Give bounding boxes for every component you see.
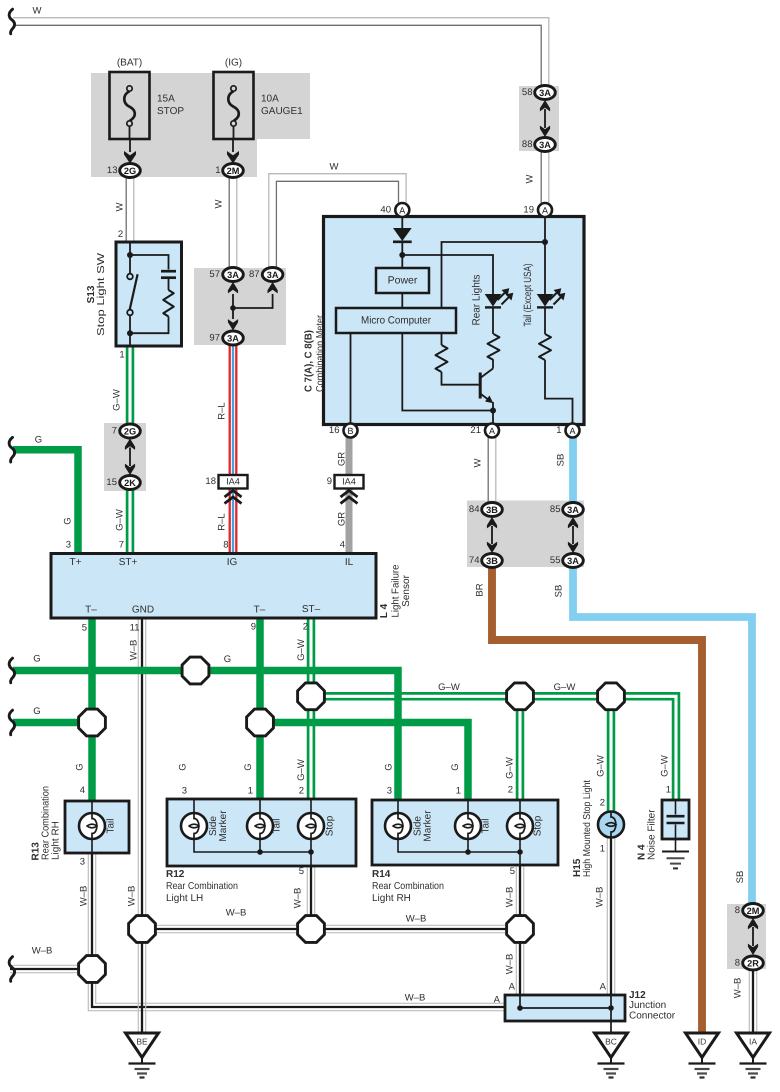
- svg-text:G–W: G–W: [296, 639, 307, 661]
- svg-text:G: G: [450, 763, 461, 770]
- svg-text:2: 2: [303, 622, 308, 633]
- junction node: [542, 239, 548, 245]
- svg-text:W–B: W–B: [293, 888, 304, 909]
- lamp H15 High Mounted Stop Light: [598, 812, 624, 838]
- svg-text:G–W: G–W: [505, 757, 516, 779]
- wire W from battery feed to connector 3A-58: [13, 25, 541, 86]
- meter pin 40: [395, 203, 409, 217]
- lamp R12 Rear Combination Light LH: [167, 799, 356, 866]
- connector 3A pin 57: [223, 268, 244, 282]
- svg-text:GR: GR: [337, 452, 348, 466]
- wire G-W stop light switch pin 1 to connector 2G-7: [126, 346, 129, 424]
- svg-text:Combination Meter: Combination Meter: [315, 314, 326, 392]
- svg-text:W–B: W–B: [79, 886, 90, 907]
- svg-text:Tail: Tail: [481, 818, 492, 833]
- svg-text:G: G: [33, 654, 40, 665]
- svg-text:BC: BC: [605, 1037, 617, 1047]
- svg-text:R12: R12: [166, 869, 185, 880]
- svg-text:57: 57: [209, 269, 220, 280]
- wire resistor to collector: [492, 360, 494, 369]
- svg-text:GR: GR: [337, 512, 348, 526]
- svg-text:W–B: W–B: [405, 993, 426, 1004]
- svg-text:2K: 2K: [124, 478, 136, 488]
- connector 3A pin 97: [223, 331, 244, 345]
- junction node: [490, 408, 496, 414]
- wire micro computer to pin 16: [350, 333, 352, 424]
- svg-text:18: 18: [205, 476, 216, 487]
- svg-text:88: 88: [522, 139, 533, 150]
- svg-text:Rear Combination: Rear Combination: [166, 881, 238, 892]
- resistor rear lights: [488, 334, 500, 360]
- wire W-B light failure sensor GND pin 11 to ground BE: [137, 618, 139, 1033]
- svg-text:13: 13: [107, 165, 118, 176]
- wire meter pin40 to diode: [401, 216, 403, 228]
- wire W connector 3A-88 to meter pin 19: [540, 151, 542, 204]
- svg-text:3A: 3A: [227, 334, 239, 344]
- svg-text:2G: 2G: [124, 166, 136, 176]
- svg-text:BE: BE: [136, 1037, 148, 1047]
- wire W-B ground bus between splices: [142, 932, 520, 934]
- svg-text:15: 15: [106, 477, 117, 488]
- svg-text:BR: BR: [475, 583, 486, 596]
- wire W-B splice to junction connector J12 left pin A: [88, 969, 505, 1011]
- splice tail bus to R12 pin 3: [182, 657, 209, 684]
- svg-text:IA: IA: [749, 1037, 757, 1047]
- svg-text:2: 2: [600, 798, 605, 809]
- svg-text:G–W: G–W: [660, 755, 671, 777]
- svg-text:4: 4: [340, 540, 345, 551]
- svg-text:W–B: W–B: [32, 946, 53, 957]
- svg-text:STOP: STOP: [157, 106, 184, 117]
- svg-text:T–: T–: [254, 605, 266, 616]
- connector 3B pin 84: [482, 503, 503, 517]
- resistor base: [436, 345, 448, 372]
- svg-text:3A: 3A: [539, 140, 551, 150]
- svg-text:G–W: G–W: [112, 389, 123, 411]
- connector gray panel 3B/3A (84/85/74/55): [467, 501, 584, 568]
- meter pin 1: [566, 424, 580, 438]
- svg-text:Light RH: Light RH: [372, 893, 411, 904]
- svg-text:W: W: [473, 458, 484, 467]
- svg-text:Marker: Marker: [218, 810, 229, 842]
- svg-text:5: 5: [510, 866, 515, 877]
- svg-text:W: W: [115, 202, 126, 211]
- break symbol G bus2: [9, 710, 14, 735]
- svg-text:SB: SB: [556, 454, 567, 467]
- svg-text:W–B: W–B: [505, 887, 516, 908]
- svg-text:1: 1: [600, 844, 605, 855]
- splice G-W to high mounted stop light: [598, 683, 625, 710]
- svg-text:R–L: R–L: [217, 513, 228, 530]
- svg-text:40: 40: [380, 205, 391, 216]
- wire W-B high mounted stop light pin 1 to junction connector J12 pin A: [606, 837, 608, 995]
- svg-text:W–B: W–B: [406, 914, 427, 925]
- svg-text:9: 9: [327, 476, 332, 487]
- svg-text:1: 1: [248, 786, 253, 797]
- wire LED to resistor: [492, 308, 494, 335]
- connector mating arrows: [572, 526, 574, 544]
- meter pin 21: [485, 424, 499, 438]
- wire resistor to base: [442, 372, 479, 385]
- break symbol G: [9, 437, 14, 462]
- svg-text:W–B: W–B: [505, 954, 516, 975]
- svg-text:W–B: W–B: [733, 978, 744, 999]
- svg-text:16: 16: [329, 425, 340, 436]
- svg-text:Light LH: Light LH: [166, 893, 203, 904]
- svg-text:3B: 3B: [486, 556, 498, 566]
- wire W connector 3A-87 to meter pin 40: [276, 181, 398, 268]
- svg-text:A: A: [509, 982, 516, 993]
- svg-text:IA4: IA4: [226, 477, 240, 487]
- svg-text:A: A: [542, 206, 548, 216]
- svg-text:15A: 15A: [157, 94, 175, 105]
- svg-text:Tail: Tail: [106, 818, 117, 833]
- svg-text:2R: 2R: [747, 959, 759, 969]
- connector mating arrows: [752, 927, 754, 946]
- svg-text:Junction: Junction: [629, 1000, 666, 1011]
- wire G-W stop signal bus to noise filter pin 1: [311, 699, 673, 800]
- svg-text:W: W: [33, 6, 42, 17]
- svg-text:W: W: [525, 174, 536, 183]
- svg-text:3B: 3B: [486, 505, 498, 515]
- wire SB connector 3A-55 to connector 2M-8: [573, 568, 752, 905]
- ground BE: [126, 1033, 159, 1078]
- svg-text:G: G: [35, 435, 42, 446]
- connector IA4 pin 18: [205, 475, 247, 504]
- svg-text:A: A: [569, 426, 575, 436]
- svg-text:19: 19: [523, 205, 534, 216]
- wire micro computer to emitter node: [402, 333, 493, 411]
- Micro Computer box: [336, 308, 456, 333]
- splice W-B R14: [507, 916, 534, 943]
- svg-text:W–B: W–B: [129, 640, 140, 661]
- svg-text:84: 84: [469, 504, 480, 515]
- splice G-W stop bus: [298, 683, 325, 710]
- wire G break to light failure sensor T+ pin 3: [13, 450, 78, 554]
- svg-text:Connector: Connector: [629, 1011, 676, 1022]
- splice G-W to R14 stop: [507, 683, 534, 710]
- connector 2G pin 13: [120, 164, 141, 178]
- svg-text:A: A: [600, 982, 607, 993]
- svg-text:11: 11: [130, 623, 140, 634]
- svg-text:2: 2: [299, 786, 304, 797]
- wire W connector 2M-1 to connector 3A-57: [228, 178, 230, 269]
- svg-text:G: G: [384, 763, 395, 770]
- lamp R13 Rear Combination Light RH (tail): [31, 786, 130, 861]
- connector mating arrows: [129, 448, 131, 467]
- meter pin 16: [344, 424, 358, 438]
- svg-text:ST–: ST–: [302, 604, 321, 615]
- svg-text:7: 7: [119, 540, 124, 551]
- break symbol W-B: [9, 957, 14, 982]
- connector 2G pin 7: [120, 424, 141, 438]
- svg-text:Noise Filter: Noise Filter: [647, 809, 658, 860]
- svg-text:Micro Computer: Micro Computer: [361, 315, 431, 327]
- svg-text:GND: GND: [132, 605, 154, 616]
- wire emitter to pin 21: [492, 402, 494, 424]
- wire node to rear-lights LED: [402, 255, 493, 294]
- svg-text:SB: SB: [554, 585, 565, 598]
- svg-text:3A: 3A: [267, 270, 279, 280]
- connector gray panel 2M/2R: [727, 904, 766, 969]
- svg-text:2: 2: [508, 785, 513, 796]
- wire W-B connector 2R-8 to ground IA: [748, 970, 750, 1034]
- svg-text:G–W: G–W: [115, 509, 126, 531]
- svg-text:2G: 2G: [124, 427, 136, 437]
- svg-text:Tail: Tail: [272, 818, 283, 833]
- splice G to rear light LH pin 1: [247, 709, 274, 736]
- splice W-B ground bus left: [129, 916, 156, 943]
- connector 3A pin 87: [262, 268, 283, 282]
- ground IA: [737, 1033, 770, 1078]
- wire G tail bus to rear combination light RH side marker pin 3: [13, 671, 398, 802]
- wire fuse STOP to connector 2G: [129, 139, 131, 152]
- svg-text:Light RH: Light RH: [51, 821, 62, 860]
- svg-text:Stop: Stop: [533, 815, 544, 836]
- svg-text:Sensor: Sensor: [401, 574, 412, 606]
- wire G light failure sensor T- pin 9 to rear combination light LH tail pin 1: [256, 618, 264, 799]
- svg-text:High Mounted Stop Light: High Mounted Stop Light: [582, 780, 593, 877]
- svg-text:87: 87: [249, 269, 260, 280]
- fuse 15A STOP: [110, 58, 185, 140]
- svg-text:A: A: [399, 206, 405, 216]
- wire W-B rear combination light RH pin 3 to splice: [87, 853, 89, 969]
- wire Power to Micro Computer: [401, 293, 403, 308]
- svg-text:8: 8: [735, 958, 740, 969]
- svg-text:3A: 3A: [539, 88, 551, 98]
- wire SB meter pin 1 to connector 3A-85: [569, 438, 577, 503]
- diode D1: [393, 228, 412, 241]
- wire G splice to rear combination light RH tail pin 1: [260, 723, 468, 802]
- svg-text:74: 74: [469, 555, 480, 566]
- svg-text:1: 1: [556, 425, 561, 436]
- svg-text:R–L: R–L: [217, 402, 228, 419]
- svg-text:A: A: [494, 995, 501, 1006]
- svg-text:W–B: W–B: [595, 887, 606, 908]
- junction node: [399, 252, 405, 258]
- fuse 10A GAUGE1: [214, 58, 304, 140]
- svg-text:G: G: [178, 763, 189, 770]
- svg-text:Light Failure: Light Failure: [391, 564, 402, 617]
- wire node to micro computer: [442, 242, 546, 308]
- connector 2M pin 1: [223, 164, 244, 178]
- ECU L4 Light Failure Sensor: [51, 554, 412, 619]
- svg-text:T+: T+: [70, 557, 82, 568]
- svg-text:55: 55: [550, 555, 561, 566]
- svg-text:G–W: G–W: [554, 682, 576, 693]
- connector 3A pin 88: [535, 138, 556, 152]
- svg-text:97: 97: [209, 333, 220, 344]
- svg-text:W: W: [214, 199, 225, 208]
- wire G break to splice: [13, 719, 92, 727]
- svg-text:GAUGE1: GAUGE1: [261, 106, 303, 117]
- svg-text:G–W: G–W: [438, 682, 460, 693]
- connector 3A pin 58: [535, 86, 556, 100]
- connector 3B pin 74: [482, 554, 503, 568]
- connector IA4 pin 9: [327, 475, 364, 504]
- svg-text:Rear Lights: Rear Lights: [471, 275, 483, 326]
- connector gray panel 2G/2K: [104, 423, 146, 491]
- wire W-B rear combination light LH pin 5 to splice: [306, 866, 308, 929]
- svg-text:7: 7: [112, 426, 117, 437]
- svg-text:L 4: L 4: [379, 603, 390, 618]
- svg-text:21: 21: [470, 425, 481, 436]
- wire LED tail to resistor: [544, 308, 546, 335]
- wire micro computer to transistor base: [441, 333, 443, 345]
- svg-text:2: 2: [118, 229, 123, 240]
- splice W-B to J12: [79, 956, 106, 983]
- svg-text:Stop: Stop: [325, 815, 336, 836]
- svg-text:(BAT): (BAT): [117, 58, 142, 69]
- connector 2M pin 8: [743, 904, 764, 918]
- resistor tail: [539, 334, 551, 360]
- svg-text:9: 9: [251, 622, 256, 633]
- splice W-B R12: [298, 916, 325, 943]
- connector 3A pin 55: [563, 554, 584, 568]
- svg-text:5: 5: [299, 866, 304, 877]
- svg-text:5: 5: [82, 623, 87, 634]
- connector gray panel 3A (58/88): [519, 86, 559, 151]
- svg-text:IG: IG: [227, 557, 238, 568]
- svg-text:Power: Power: [388, 275, 418, 287]
- wire R-L connector IA4 to light failure sensor IG pin 8: [229, 489, 231, 554]
- svg-text:ID: ID: [698, 1037, 707, 1047]
- svg-text:B: B: [347, 426, 353, 436]
- svg-text:3: 3: [387, 786, 392, 797]
- svg-text:A: A: [489, 426, 495, 436]
- break symbol top-left: [9, 9, 14, 34]
- svg-text:Tail (Except USA): Tail (Except USA): [522, 264, 534, 327]
- wire W-B splice to junction connector J12 top pin A: [515, 929, 517, 995]
- svg-text:1: 1: [666, 785, 671, 796]
- wire W connector 2G-13 to stop light switch pin 2: [125, 178, 127, 243]
- ground BC: [595, 1033, 628, 1078]
- LED tail: [537, 294, 554, 307]
- lamp R14 Rear Combination Light RH: [372, 800, 558, 865]
- svg-text:8: 8: [223, 540, 228, 551]
- svg-text:Marker: Marker: [423, 810, 434, 842]
- svg-text:85: 85: [550, 504, 561, 515]
- svg-text:Stop Light SW: Stop Light SW: [96, 252, 107, 336]
- wire meter pin19 down: [544, 216, 546, 294]
- svg-text:(IG): (IG): [225, 58, 242, 69]
- svg-text:2M: 2M: [747, 906, 760, 916]
- svg-text:1: 1: [456, 786, 461, 797]
- connector gray panel 3A (57/87/97): [194, 268, 286, 345]
- svg-text:T–: T–: [85, 605, 97, 616]
- Power unit box: [376, 268, 429, 293]
- svg-text:C 7(A), C 8(B): C 7(A), C 8(B): [304, 330, 315, 392]
- svg-text:G: G: [63, 517, 74, 524]
- svg-text:G: G: [75, 763, 86, 770]
- svg-text:3: 3: [66, 540, 71, 551]
- wire G-W connector 2K-15 to light failure sensor ST+ pin 7: [126, 490, 129, 554]
- svg-text:G–W: G–W: [596, 755, 607, 777]
- noise filter N4: [637, 800, 690, 868]
- wire W meter pin 21 to connector 3B-84: [487, 438, 489, 503]
- svg-text:3: 3: [80, 857, 85, 868]
- LED rear lights: [485, 294, 502, 307]
- wire G-W splice to rear combination light RH stop pin 2: [516, 696, 519, 800]
- svg-text:3A: 3A: [227, 270, 239, 280]
- svg-text:G: G: [243, 763, 254, 770]
- svg-text:IL: IL: [345, 557, 354, 568]
- ECU C7(A),C8(B) Combination Meter: [304, 217, 585, 425]
- svg-text:W: W: [330, 162, 339, 173]
- wire fuse GAUGE1 to connector 2M: [232, 139, 234, 152]
- switch S13 Stop Light SW: [86, 242, 182, 346]
- meter pin 19: [538, 203, 552, 217]
- connector 2R pin 8: [743, 956, 764, 970]
- svg-text:G: G: [33, 706, 40, 717]
- svg-text:1: 1: [215, 165, 220, 176]
- svg-text:58: 58: [522, 87, 533, 98]
- wire G light failure sensor T- pin 5 to rear combination light RH pin 4: [88, 618, 96, 801]
- svg-text:W–B: W–B: [226, 908, 247, 919]
- wire W-B rear combination light RH pin 5 to splice: [515, 865, 517, 929]
- svg-text:ST+: ST+: [119, 557, 138, 568]
- wire R-L connector 3A-97 to connector IA4-18: [229, 345, 231, 475]
- svg-text:8: 8: [735, 905, 740, 916]
- wire G-W light failure sensor ST- pin 2 to rear combination light LH stop pin 2: [307, 618, 310, 799]
- wire W-B break to splice: [10, 972, 92, 974]
- connector 3A pin 85: [563, 503, 584, 517]
- svg-text:3A: 3A: [567, 556, 579, 566]
- wire GR connector IA4 to light failure sensor IL pin 4: [346, 489, 353, 554]
- svg-text:R14: R14: [372, 869, 391, 880]
- svg-text:2M: 2M: [227, 166, 240, 176]
- svg-text:IA4: IA4: [342, 477, 356, 487]
- wire diode to Power: [401, 242, 403, 269]
- splice G to rear light RH pin 4: [79, 709, 106, 736]
- ground ID: [686, 1033, 719, 1078]
- break symbol G bus1: [9, 658, 14, 683]
- connector 2K pin 15: [120, 476, 141, 490]
- svg-text:Rear Combination: Rear Combination: [372, 881, 444, 892]
- svg-text:1: 1: [119, 350, 124, 361]
- svg-text:G: G: [224, 654, 231, 665]
- wire GR meter pin 16 to connector IA4-9: [346, 438, 353, 476]
- junction connector J12: [505, 995, 625, 1033]
- svg-text:3A: 3A: [567, 505, 579, 515]
- transistor Q1: [480, 369, 493, 404]
- svg-text:10A: 10A: [261, 94, 279, 105]
- wire G-W splice to high mounted stop light pin 2: [607, 696, 610, 812]
- svg-text:3: 3: [182, 786, 187, 797]
- svg-text:G–W: G–W: [296, 759, 307, 781]
- connector junction wiring: [233, 294, 273, 308]
- svg-text:W–B: W–B: [127, 886, 138, 907]
- connector mating arrows: [544, 109, 546, 128]
- wire BR connector 3B-74 to ground ID: [492, 568, 702, 1034]
- fuse block gray panel: [91, 73, 310, 139]
- svg-text:SB: SB: [735, 871, 746, 884]
- wire resistor tail to pin 1: [545, 360, 573, 424]
- connector mating arrows: [491, 526, 493, 544]
- svg-text:4: 4: [80, 785, 85, 796]
